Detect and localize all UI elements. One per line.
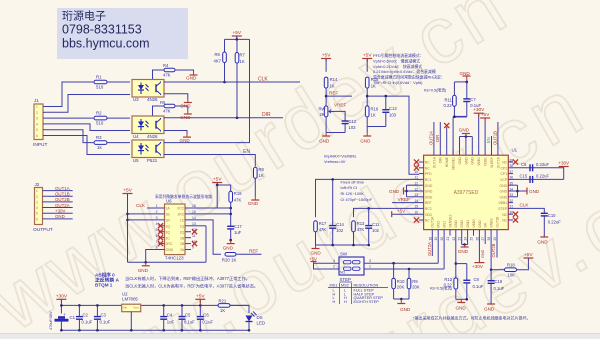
svg-text:R3: R3 [96, 135, 102, 140]
svg-text:EN: EN [243, 149, 250, 155]
pin top GND [459, 149, 461, 155]
svg-text:OUT2B: OUT2B [495, 216, 499, 228]
wire DIR line [164, 117, 284, 119]
svg-text:19: 19 [434, 237, 438, 241]
svg-text:R2: R2 [96, 111, 102, 116]
ground R5 [187, 111, 189, 115]
wire bottom rail [61, 329, 249, 331]
svg-text:MS2: MS2 [437, 221, 441, 228]
ground R8 [254, 197, 256, 201]
svg-text:BTQM 1: BTQM 1 [95, 283, 113, 288]
svg-text:C2: C2 [83, 313, 89, 318]
resistor R14 1K [324, 77, 328, 88]
wire J1.1 to R1 [46, 82, 94, 107]
svg-text:当CLK无输入时，CLK为高电平，REF为低电平，A3977: 当CLK无输入时，CLK为高电平，REF为低电平，A3977进入省电状态。 [125, 283, 258, 290]
capacitor C3 0.1uF [96, 305, 98, 316]
pin right NC [508, 213, 513, 215]
svg-text:GND: GND [460, 71, 471, 76]
svg-text:GND: GND [454, 220, 458, 228]
wire R5 to GND [175, 106, 188, 111]
svg-text:EN: EN [486, 137, 491, 143]
resistor R2 510 [94, 116, 107, 120]
svg-text:REF: REF [425, 201, 432, 205]
svg-text:C4: C4 [167, 313, 173, 318]
wire R11 C7 top bar [454, 81, 466, 83]
svg-text:+30V: +30V [55, 208, 65, 213]
svg-text:SLEEP: SLEEP [490, 156, 494, 167]
svg-text:10: 10 [414, 170, 418, 174]
svg-text:GND: GND [478, 220, 482, 228]
X mark HOME [446, 127, 448, 149]
resistor R18 10K [491, 269, 504, 271]
svg-text:30: 30 [510, 211, 514, 215]
wire RC1 [316, 179, 420, 217]
svg-text:0.1uF: 0.1uF [100, 320, 111, 325]
svg-text:5: 5 [36, 128, 38, 132]
svg-text:VBB1: VBB1 [498, 201, 507, 205]
svg-text:2: 2 [36, 195, 38, 199]
svg-text:GND: GND [484, 307, 495, 312]
wire STEP to C10 [513, 208, 544, 213]
svg-text:29: 29 [493, 237, 497, 241]
resistor R17 47K [314, 221, 318, 232]
svg-text:CLK: CLK [258, 77, 268, 83]
svg-text:R14: R14 [330, 77, 338, 82]
wire J2 pin 6 [43, 218, 73, 220]
svg-text:OUT2B: OUT2B [55, 197, 70, 202]
pin right NC [508, 219, 513, 221]
wire R19 to C17 [230, 202, 232, 226]
svg-text:47K: 47K [163, 73, 171, 78]
svg-text:Ct 470pF~1500pF: Ct 470pF~1500pF [341, 197, 373, 202]
pin top SENSE1 [452, 149, 454, 155]
svg-text:4: 4 [36, 122, 38, 126]
svg-text:H: H [333, 300, 336, 304]
svg-text:SENSE1: SENSE1 [452, 157, 456, 170]
pin top DIR [439, 149, 441, 155]
svg-text:0.1uF: 0.1uF [473, 284, 484, 289]
resistor R9 20K [408, 269, 410, 278]
pin bottom GND [461, 230, 463, 236]
resistor R13 47K [352, 221, 356, 232]
svg-text:1RC: 1RC [177, 213, 184, 217]
resistor R16 1K [365, 106, 369, 117]
svg-text:CP2: CP2 [500, 166, 507, 170]
svg-text:1uF: 1uF [167, 320, 175, 325]
wire R20 to REF [236, 253, 262, 255]
svg-text:OUTPUT: OUTPUT [33, 227, 53, 233]
svg-text:Rs=0.5(限流): Rs=0.5(限流) [424, 88, 447, 93]
wire CLK line [164, 81, 301, 83]
svg-text:0.22uF: 0.22uF [548, 220, 561, 225]
node REF [326, 95, 352, 97]
svg-text:NC: NC [425, 219, 430, 223]
wire J1.4 to U4 [46, 124, 130, 131]
svg-text:VCC: VCC [177, 207, 185, 211]
svg-text:Rt 12K~100K: Rt 12K~100K [341, 191, 365, 196]
svg-text:C16: C16 [495, 279, 503, 284]
svg-text:GND: GND [464, 157, 468, 165]
pin left VDD [419, 213, 424, 215]
ground U6 [145, 262, 147, 266]
svg-text:3: 3 [369, 259, 371, 263]
svg-text:GND: GND [55, 214, 65, 219]
svg-text:2RC: 2RC [166, 242, 173, 246]
svg-text:OUT1B: OUT1B [493, 131, 498, 145]
svg-text:STEP: STEP [340, 277, 352, 282]
wire U5 collector +5V [164, 39, 250, 142]
wire R3 to U5 [108, 142, 131, 144]
svg-text:C11: C11 [372, 222, 380, 227]
svg-text:A3977SED: A3977SED [454, 190, 479, 196]
svg-text:7: 7 [156, 240, 158, 244]
svg-text:C15: C15 [520, 173, 528, 178]
pin top SLEEP [491, 149, 493, 155]
svg-text:2: 2 [333, 265, 335, 269]
potentiometer RW 2K [324, 106, 328, 117]
ground RW C12 [325, 133, 327, 137]
svg-text:C14: C14 [336, 222, 344, 227]
svg-text:3: 3 [36, 200, 38, 204]
svg-text:Vpfd>0.6Vdd： 慢衰减模式: Vpfd>0.6Vdd： 慢衰减模式 [373, 58, 420, 63]
resistor R6 4K7 [224, 39, 226, 52]
pin left GND [419, 196, 424, 198]
svg-text:Fixed off-time: Fixed off-time [341, 179, 365, 184]
power +30V VBB [478, 113, 480, 149]
svg-text:GND: GND [471, 157, 475, 165]
capacitor C10 0.22nF [541, 212, 548, 214]
capacitor C5 0.1uF [181, 305, 183, 316]
svg-text:TBF=Rt Ct ln(0.6Vdd：Vpfd): TBF=Rt Ct ln(0.6Vdd：Vpfd) [373, 80, 423, 85]
svg-text:NC: NC [425, 166, 430, 170]
pin top GND [471, 149, 473, 155]
pin bottom GND [478, 230, 480, 236]
svg-text:NO.: NO. [340, 271, 346, 275]
wire R6 to CLK [224, 63, 226, 83]
wire PFD to chip [367, 96, 419, 174]
wire R12 C8 gnd [455, 289, 457, 299]
svg-text:+30V: +30V [472, 264, 484, 269]
svg-text:4N26: 4N26 [147, 97, 158, 102]
power +5V U6 [123, 193, 133, 195]
svg-text:NC: NC [502, 219, 507, 223]
capacitor C7 0.1uF [463, 98, 470, 100]
svg-text:+30V: +30V [56, 293, 68, 299]
svg-text:STEP: STEP [498, 207, 508, 211]
svg-text:74HC123: 74HC123 [165, 256, 184, 261]
wire R10 R9 gnd [393, 289, 395, 299]
pin bottom VREG [490, 230, 492, 236]
svg-text:24: 24 [464, 237, 468, 241]
svg-text:GND: GND [537, 240, 548, 245]
svg-text:MS1: MS1 [330, 283, 338, 287]
svg-text:混合衰减模式时间常数由快衰减RH决定：: 混合衰减模式时间常数由快衰减RH决定： [373, 75, 445, 80]
svg-text:C17: C17 [234, 224, 242, 229]
wire wiper to C12 [334, 111, 345, 121]
svg-text:0.22uF: 0.22uF [536, 162, 549, 167]
svg-text:EIGHTH STEP: EIGHTH STEP [354, 300, 380, 304]
wire +5V bar [236, 36, 238, 39]
wire MS2 riser [437, 236, 439, 264]
svg-text:CP1: CP1 [500, 172, 507, 176]
pin top HOME [446, 149, 448, 155]
svg-text:23: 23 [458, 237, 462, 241]
svg-text:VREF: VREF [334, 103, 346, 108]
svg-text:LM7805: LM7805 [122, 297, 138, 302]
wire R16 C13 to gnd [366, 117, 368, 133]
pin bottom GND [467, 230, 469, 236]
power +5V R14 [321, 58, 331, 60]
svg-text:0798-8331153: 0798-8331153 [62, 23, 142, 37]
ground RC [315, 245, 317, 249]
svg-text:47K: 47K [234, 198, 242, 203]
resistor R5 47K [153, 106, 165, 116]
svg-text:R21: R21 [219, 299, 227, 304]
svg-text:Vout: Vout [133, 306, 139, 310]
svg-text:+30V: +30V [558, 161, 570, 166]
switch SW [339, 257, 364, 275]
svg-text:R19: R19 [234, 191, 242, 196]
svg-text:MS1: MS1 [443, 221, 447, 228]
svg-text:C9: C9 [521, 162, 527, 167]
wire MS1 riser [443, 236, 445, 269]
resistor R7 1K [236, 39, 238, 52]
svg-text:LED: LED [257, 321, 266, 326]
pin right CP1 [508, 173, 513, 175]
wire U4 emitter [164, 131, 188, 134]
wire R1 to U3 [108, 81, 131, 83]
capacitor C16 0.1uF [490, 270, 492, 281]
svg-text:U6: U6 [166, 199, 172, 204]
svg-text:OUT1B: OUT1B [55, 191, 70, 196]
svg-text:22: 22 [452, 237, 456, 241]
wire U6 feedback loop [128, 261, 207, 263]
svg-text:GND: GND [138, 268, 149, 273]
svg-text:RC2: RC2 [425, 207, 432, 211]
wire SW left [314, 262, 340, 264]
svg-text:GND: GND [459, 128, 470, 133]
wire sense1 to chip [452, 117, 454, 156]
svg-text:OUT1A: OUT1A [55, 186, 70, 191]
svg-text:+5V: +5V [196, 293, 205, 299]
svg-text:0.22: 0.22 [444, 103, 453, 108]
svg-text:1K: 1K [240, 59, 245, 64]
pin bottom VBB2 [473, 230, 475, 236]
svg-text:510: 510 [96, 121, 104, 126]
power +5V VDD pin [392, 213, 419, 215]
resistor R1 510 [94, 80, 107, 84]
svg-text:OUT2A: OUT2A [431, 216, 435, 228]
svg-text:REF: REF [329, 90, 338, 95]
svg-text:C10: C10 [548, 213, 556, 218]
svg-text:470uF/35V: 470uF/35V [49, 311, 53, 330]
svg-text:35: 35 [510, 182, 514, 186]
svg-text:6: 6 [36, 134, 38, 138]
svg-text:VREF: VREF [398, 197, 410, 202]
svg-text:NC: NC [502, 213, 507, 217]
svg-text:1K: 1K [220, 308, 225, 313]
pin right NC [508, 161, 513, 163]
pin right VBB1 [508, 202, 513, 204]
svg-text:103: 103 [349, 125, 357, 130]
svg-text:2K: 2K [320, 112, 325, 117]
svg-text:GND: GND [319, 139, 330, 144]
svg-text:0.1uF: 0.1uF [470, 103, 481, 108]
wire U3 emitter [164, 94, 188, 99]
pin right GND [508, 190, 513, 192]
svg-text:GND: GND [389, 189, 400, 194]
wire sense1 bar [466, 102, 468, 117]
svg-text:510: 510 [96, 85, 104, 90]
svg-text:GND: GND [311, 251, 322, 256]
pin top GND [465, 149, 467, 155]
node VREF chip [392, 202, 419, 204]
node DIR top [439, 122, 441, 149]
svg-text:OUT1B: OUT1B [496, 156, 500, 168]
svg-text:INPUT: INPUT [33, 142, 47, 148]
svg-text:Vpfd<0.21Vdd： 快衰减模式: Vpfd<0.21Vdd： 快衰减模式 [373, 64, 422, 69]
power +5V pullups [232, 35, 242, 37]
svg-text:1R: 1R [166, 218, 171, 222]
svg-text:GND: GND [460, 220, 464, 228]
power +5V R19 [212, 182, 222, 184]
svg-text:+5V: +5V [309, 256, 317, 261]
svg-text:珩源电子: 珩源电子 [62, 9, 106, 23]
svg-text:GND: GND [500, 190, 508, 194]
svg-text:VDD1: VDD1 [484, 157, 488, 166]
wire R21 to LED [230, 305, 249, 313]
svg-text:GND: GND [456, 306, 467, 311]
svg-text:J2: J2 [35, 182, 40, 187]
pin left NC [419, 161, 424, 163]
capacitor C4 1uF [163, 305, 165, 316]
wire U6 pin8 gnd [146, 250, 165, 263]
svg-text:4: 4 [156, 222, 158, 226]
svg-text:DS: DS [257, 315, 263, 320]
svg-text:R1: R1 [96, 75, 102, 80]
svg-text:GND: GND [400, 307, 411, 312]
svg-text:U1: U1 [512, 148, 518, 153]
resistor R8 1K [254, 167, 258, 178]
svg-text:36: 36 [510, 176, 514, 180]
svg-text:4N26: 4N26 [147, 134, 158, 139]
svg-text:20K: 20K [397, 285, 405, 290]
wire RC2 [354, 208, 420, 217]
regulator U2 LM7805 [122, 304, 141, 312]
svg-text:C12: C12 [349, 119, 357, 124]
svg-text:2B: 2B [180, 242, 185, 246]
power +5V VDD [484, 118, 486, 149]
wire RC gnd bar [316, 244, 369, 246]
svg-text:2A: 2A [180, 248, 185, 252]
power +5V out [195, 298, 205, 300]
ground U3 [187, 99, 189, 103]
svg-text:103: 103 [389, 113, 397, 118]
pin bottom SR [484, 230, 486, 236]
wire bottom GND trio [461, 236, 463, 245]
svg-text:OUT2A: OUT2A [55, 203, 70, 208]
svg-text:R6: R6 [215, 52, 221, 57]
power +30V input [56, 298, 66, 300]
svg-text:C13: C13 [389, 106, 397, 111]
svg-text:47K: 47K [319, 227, 327, 232]
svg-text:CLK: CLK [136, 203, 146, 208]
pin bottom SENSE2 [449, 230, 451, 236]
pin right GND [508, 196, 513, 198]
svg-text:J1: J1 [34, 98, 39, 103]
svg-text:C5: C5 [185, 313, 191, 318]
svg-text:C6: C6 [203, 313, 209, 318]
wire J1.3 to R2 [46, 117, 94, 119]
power +5V R15 [362, 58, 372, 60]
svg-text:102: 102 [336, 228, 344, 233]
ground R4 [193, 72, 195, 76]
svg-text:GND: GND [186, 76, 197, 81]
svg-text:1A: 1A [166, 207, 171, 211]
svg-text:27: 27 [481, 237, 485, 241]
svg-text:4: 4 [36, 206, 38, 210]
svg-text:6: 6 [36, 217, 38, 221]
pin bottom MS1 [443, 230, 445, 236]
svg-text:VCP: VCP [500, 178, 508, 182]
pin top OUT1A [433, 149, 435, 155]
svg-text:SENSE2: SENSE2 [448, 214, 452, 227]
svg-text:R17: R17 [319, 221, 327, 226]
svg-text:GND: GND [458, 157, 462, 165]
svg-text:NC: NC [425, 161, 430, 165]
capacitor C13 103 [385, 96, 387, 110]
svg-text:OUT1A: OUT1A [432, 156, 436, 168]
node OUT1B [497, 122, 499, 149]
svg-text:CLK: CLK [520, 203, 530, 208]
pin top OUT1B [497, 149, 499, 155]
wire +30V rail top [60, 299, 62, 313]
svg-text:U4: U4 [133, 134, 139, 139]
svg-text:25: 25 [470, 237, 474, 241]
wire chip left GND trio [407, 184, 420, 186]
svg-text:31: 31 [510, 205, 514, 209]
svg-text:H: H [344, 300, 347, 304]
ground C17 [230, 240, 232, 244]
pin right STEP [508, 207, 513, 209]
svg-text:+5V: +5V [524, 252, 533, 257]
svg-text:0.21Vdd<Vpfd<0.6Vdd：混合衰减模: 0.21Vdd<Vpfd<0.6Vdd：混合衰减模 [373, 69, 436, 74]
wire R15 to PFD node [366, 88, 368, 106]
wire J2 pin 2 [43, 195, 73, 197]
svg-text:MS2: MS2 [341, 283, 349, 287]
svg-text:DIR: DIR [435, 135, 440, 142]
wire J1.6 to U5 [46, 136, 130, 155]
connector J2 [35, 188, 43, 225]
svg-text:SW: SW [340, 252, 348, 257]
LED DS [246, 316, 253, 322]
svg-text:47K: 47K [357, 227, 365, 232]
pin left NC [419, 167, 424, 169]
svg-text:39: 39 [510, 158, 514, 162]
svg-text:2B: 2B [180, 236, 185, 240]
svg-text:+5V: +5V [322, 53, 331, 59]
capacitor C14 102 [332, 179, 334, 225]
svg-text:RESOLUTION: RESOLUTION [354, 283, 379, 287]
svg-text:0.1uF: 0.1uF [184, 320, 195, 325]
resistor R11 0.22 [453, 95, 457, 106]
svg-text:3: 3 [36, 117, 38, 121]
svg-text:PFD引脚控制电流衰减模式：: PFD引脚控制电流衰减模式： [373, 53, 424, 58]
wire +5V to U6 pins [127, 194, 129, 263]
svg-text:1: 1 [36, 189, 38, 193]
wire R18 to +5V [517, 258, 529, 270]
svg-text:R18: R18 [507, 263, 515, 268]
